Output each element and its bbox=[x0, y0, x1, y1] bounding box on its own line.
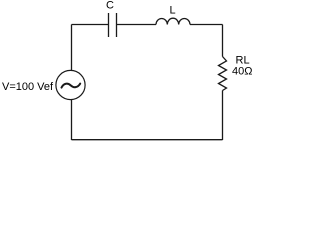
svg-text:V=100 Vef: V=100 Vef bbox=[2, 81, 54, 93]
svg-text:L: L bbox=[170, 5, 176, 17]
source V1 sine symbol bbox=[62, 84, 81, 88]
source V1 circle bbox=[56, 70, 85, 99]
wire top left segment bbox=[72, 24, 109, 26]
wire bottom segment bbox=[72, 139, 223, 141]
wire top right segment bbox=[190, 24, 223, 26]
inductor L coil bbox=[156, 18, 190, 24]
wire left vertical lower bbox=[71, 99, 73, 140]
wire top middle segment bbox=[117, 24, 157, 26]
wire right vertical upper bbox=[222, 25, 224, 57]
wire right vertical lower bbox=[222, 91, 224, 141]
capacitor C plates bbox=[109, 13, 117, 37]
svg-text:C: C bbox=[106, 0, 114, 12]
svg-text:40Ω: 40Ω bbox=[232, 66, 252, 78]
wire left vertical upper bbox=[71, 25, 73, 71]
resistor RL zigzag bbox=[219, 57, 227, 91]
